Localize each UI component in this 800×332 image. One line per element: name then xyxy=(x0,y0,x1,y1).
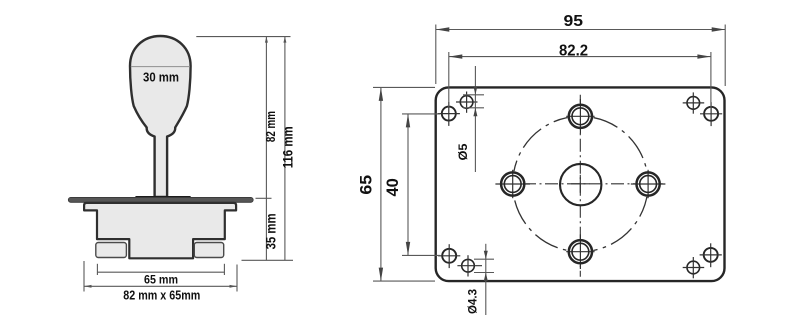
bolt hole S xyxy=(566,234,594,269)
dimension 116 mm vertical line xyxy=(284,37,286,261)
inner hole top-right xyxy=(683,92,705,113)
svg-text:82.2: 82.2 xyxy=(559,43,588,60)
ball equator line (30 mm chord) xyxy=(131,66,190,68)
inner hole top-left xyxy=(456,92,478,113)
bolt hole N xyxy=(566,99,594,134)
svg-text:82 mm: 82 mm xyxy=(263,111,278,142)
svg-text:30 mm: 30 mm xyxy=(143,70,179,85)
dimension 65 line xyxy=(380,87,382,281)
extension line right for 82x65 xyxy=(236,265,238,292)
extension line 95 left xyxy=(435,25,437,85)
dimension 82 mm vertical line xyxy=(265,37,267,199)
inner hole bottom-left xyxy=(457,255,482,276)
dia5 tangent ticks xyxy=(463,94,484,96)
svg-text:65: 65 xyxy=(356,175,375,195)
svg-text:82 mm x 65mm: 82 mm x 65mm xyxy=(123,288,200,303)
extension line 82.2 left xyxy=(448,52,450,107)
extension line 40 bottom xyxy=(402,254,440,256)
svg-text:35 mm: 35 mm xyxy=(263,213,279,249)
svg-text:116 mm: 116 mm xyxy=(281,126,296,168)
joystick body under plate xyxy=(84,203,236,258)
dimension 40 line xyxy=(407,114,409,256)
dust washer xyxy=(135,196,191,198)
vertical centerline xyxy=(579,95,581,277)
bolt hole E xyxy=(631,170,666,198)
extension line 65 top xyxy=(373,86,435,88)
mounting plate (edge-on) xyxy=(68,197,253,202)
svg-text:40: 40 xyxy=(383,178,402,196)
extension line left for 82x65 xyxy=(83,261,85,292)
dimension 82x65 line xyxy=(84,285,237,287)
inner hole bottom-right xyxy=(683,257,705,278)
extension line 65 bottom xyxy=(373,280,435,282)
right microswitch foot xyxy=(194,243,223,258)
corner hole bottom-left xyxy=(438,244,460,268)
extension line at unit bottom xyxy=(242,259,294,261)
shaft center hole xyxy=(560,164,601,205)
dia4.3 arrows xyxy=(484,251,488,260)
joystick knob and shaft xyxy=(130,36,191,197)
extension line right for 65 mm xyxy=(223,264,225,275)
dimension 35 mm vertical line xyxy=(265,198,267,260)
svg-text:Ø5: Ø5 xyxy=(456,143,470,160)
extension line 95 right xyxy=(724,25,726,87)
extension line at plate top level xyxy=(256,197,272,199)
extension line left for 65 mm xyxy=(96,264,98,275)
plate outline xyxy=(436,87,725,281)
dia4.3 leader line xyxy=(485,244,487,315)
dia5 arrows xyxy=(473,86,477,95)
dimension 65 mm line xyxy=(97,271,224,273)
center cross xyxy=(571,183,590,185)
extension line 40 top xyxy=(402,113,440,115)
horizontal centerline xyxy=(501,183,663,185)
extension line from ball top xyxy=(196,36,290,38)
corner hole bottom-right xyxy=(700,243,722,267)
corner hole top-left xyxy=(438,102,460,126)
bolt circle (dash-dot) xyxy=(513,116,648,251)
dia5 leader line xyxy=(474,66,476,172)
corner hole top-right xyxy=(700,102,722,126)
svg-text:95: 95 xyxy=(564,13,584,30)
extension line 82.2 right xyxy=(710,52,712,108)
bolt hole W xyxy=(495,170,530,198)
dimension 82.2 line xyxy=(449,56,711,58)
svg-text:Ø4.3: Ø4.3 xyxy=(466,289,480,314)
left microswitch foot xyxy=(96,243,127,258)
dimension 95 line xyxy=(436,29,725,31)
dia4.3 tangent ticks xyxy=(474,258,494,260)
svg-text:65 mm: 65 mm xyxy=(144,273,178,287)
